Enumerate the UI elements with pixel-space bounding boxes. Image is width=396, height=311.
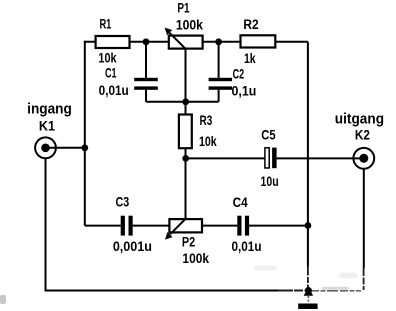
- svg-text:C4: C4: [233, 194, 249, 210]
- svg-text:1k: 1k: [244, 51, 256, 67]
- svg-text:K2: K2: [355, 127, 370, 143]
- svg-text:0,01u: 0,01u: [99, 82, 129, 98]
- svg-text:10k: 10k: [98, 50, 116, 66]
- svg-text:R2: R2: [243, 16, 258, 32]
- svg-text:R1: R1: [99, 16, 111, 32]
- svg-text:uitgang: uitgang: [335, 111, 384, 128]
- svg-text:C5: C5: [261, 127, 275, 142]
- svg-text:0,1u: 0,1u: [232, 83, 257, 99]
- svg-text:10k: 10k: [199, 133, 217, 149]
- svg-text:P1: P1: [177, 0, 189, 16]
- svg-text:100k: 100k: [182, 250, 209, 266]
- svg-text:10u: 10u: [261, 174, 279, 190]
- svg-text:ingang: ingang: [27, 101, 72, 118]
- svg-text:C1: C1: [105, 66, 117, 81]
- svg-text:100k: 100k: [176, 16, 204, 32]
- svg-text:C2: C2: [233, 66, 245, 81]
- svg-text:R3: R3: [200, 112, 213, 128]
- svg-text:C3: C3: [115, 194, 129, 210]
- svg-text:P2: P2: [182, 234, 195, 250]
- svg-text:K1: K1: [39, 118, 56, 134]
- svg-text:0,001u: 0,001u: [113, 239, 152, 255]
- svg-text:0,01u: 0,01u: [232, 238, 262, 254]
